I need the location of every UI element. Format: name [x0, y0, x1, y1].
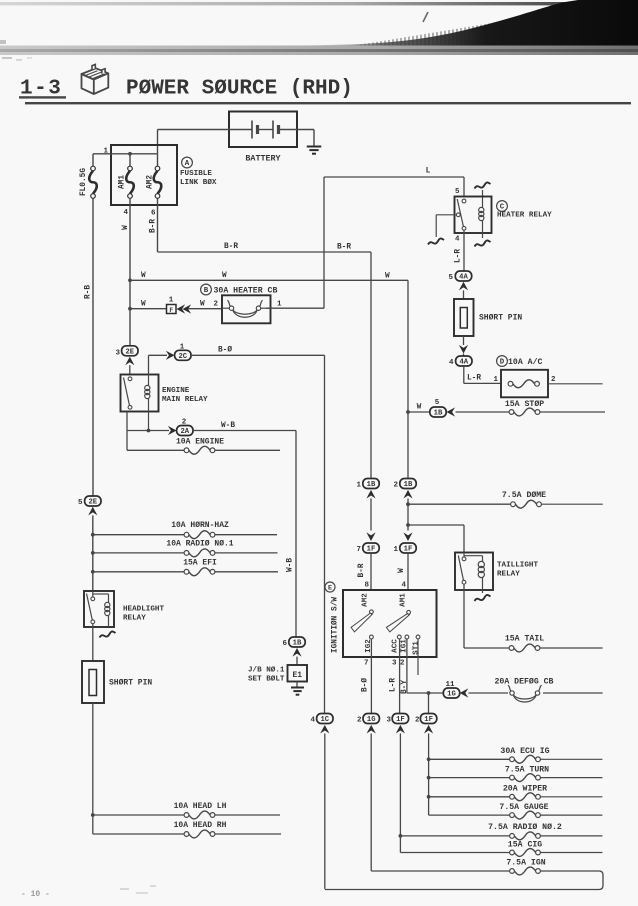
svg-text:HEADLIGHT: HEADLIGHT — [123, 606, 164, 614]
fuse 7.5A GAUGE — [499, 803, 548, 819]
wire: 10A HORN-HAZ row — [93, 534, 277, 536]
taillight relay — [455, 553, 493, 594]
svg-text:4: 4 — [123, 209, 128, 217]
svg-text:SHØRT PIN: SHØRT PIN — [109, 679, 152, 688]
wire: 15A EFI row — [93, 571, 278, 573]
wire: battery to ground — [297, 130, 314, 147]
wire label R-B — [85, 285, 93, 299]
wire: B-R horizontal (AM2 row) — [158, 251, 372, 253]
fuse 7.5A IGN — [506, 859, 545, 875]
wire: IG2 down to 2 1G — [364, 639, 371, 713]
arrow out of short pin — [459, 345, 468, 357]
heater relay (C) — [455, 188, 492, 238]
wire: 20A WIPER row — [429, 796, 603, 798]
svg-text:15A STØP: 15A STØP — [505, 399, 544, 409]
svg-text:4: 4 — [401, 582, 406, 590]
wire: L horizontal to heater relay — [324, 177, 464, 197]
wire: 7.5A DOME row — [408, 503, 603, 505]
circuit breaker 20A DEFOG CB — [495, 677, 554, 703]
svg-text:7: 7 — [364, 660, 369, 668]
fuse 10A HEAD RH — [174, 821, 227, 838]
scan noise bottom — [120, 885, 156, 894]
wire label L-R (A/C) — [467, 375, 481, 383]
wire: 15A CIG row — [400, 852, 602, 854]
scan artifact: left margin smudge — [0, 40, 32, 61]
label IGNITION S/W + circled E — [325, 582, 340, 653]
wire: engine relay switch output — [127, 412, 150, 451]
wire: 10A RADIO NO.1 row — [93, 552, 278, 554]
svg-text:D: D — [500, 359, 505, 367]
svg-text:B: B — [204, 287, 209, 295]
svg-text:2C: 2C — [178, 353, 187, 361]
svg-text:C: C — [500, 204, 505, 212]
svg-text:PØWER SØURCE (RHD): PØWER SØURCE (RHD) — [126, 78, 353, 101]
pin 4 label (ign) — [401, 582, 406, 590]
wire: 3 1F down — [399, 734, 403, 853]
svg-text:2E: 2E — [125, 348, 134, 356]
wire label B-R (ign) — [358, 563, 366, 577]
wire: AM1 to connector F — [130, 308, 167, 310]
wire: AM2 down to B-R row — [157, 198, 159, 252]
svg-text:B-R: B-R — [358, 563, 366, 577]
svg-text:4: 4 — [449, 359, 454, 367]
wire label W (1) — [141, 272, 146, 280]
wire: taillight relay to 15A TAIL — [464, 584, 603, 648]
label SHORT PIN (left) — [109, 679, 152, 688]
wire label W (4) — [141, 301, 146, 309]
wire: headlight relay to short pin — [92, 624, 94, 661]
engine main relay — [121, 375, 159, 431]
svg-text:2: 2 — [415, 717, 420, 725]
svg-text:W: W — [398, 568, 406, 573]
svg-text:7.5A GAUGE: 7.5A GAUGE — [499, 803, 548, 812]
fuse 10A HORN-HAZ — [171, 521, 229, 539]
label TAILLIGHT RELAY — [497, 562, 538, 579]
svg-text:5: 5 — [78, 499, 83, 507]
wire: 2E to headlight relay — [91, 515, 95, 591]
wire: B-O from 2C to right riser — [191, 346, 325, 356]
svg-text:1F: 1F — [424, 716, 433, 724]
svg-text:1C: 1C — [320, 716, 329, 724]
wire label W (ign) — [398, 568, 406, 573]
double arrows at connector F — [177, 304, 192, 313]
svg-text:1B: 1B — [404, 481, 413, 489]
fuse 7.5A RADIO NO.2 — [488, 822, 562, 840]
svg-text:8: 8 — [364, 582, 369, 590]
svg-text:ACC: ACC — [392, 639, 400, 653]
scan artifact: gray band under wedge — [0, 46, 638, 56]
wire: 7.5A GAUGE row — [429, 814, 603, 816]
svg-text:F: F — [169, 307, 173, 314]
svg-text:20A DEFØG CB: 20A DEFØG CB — [495, 677, 554, 687]
svg-text:10A RADIØ NØ.1: 10A RADIØ NØ.1 — [166, 540, 233, 549]
fuse 30A ECU IG — [500, 747, 549, 763]
short pin (right) — [454, 299, 474, 345]
svg-text:2: 2 — [400, 660, 405, 668]
arrow + connector 2 2A — [168, 419, 193, 437]
wire: 7.5A TURN row — [429, 777, 603, 779]
squiggle: taillight relay coil lead — [475, 595, 491, 601]
connector 5 2E — [78, 496, 101, 507]
wire: bottom return bus — [325, 871, 603, 890]
wire: taillight relay feed — [408, 525, 464, 553]
svg-text:4: 4 — [455, 236, 460, 244]
svg-text:TAILLIGHT: TAILLIGHT — [497, 562, 538, 570]
svg-text:B-Y: B-Y — [401, 680, 409, 694]
label ST1 — [413, 641, 421, 655]
svg-text:L: L — [426, 168, 431, 176]
svg-text:7: 7 — [356, 546, 361, 554]
label AM1 (ignition) — [400, 593, 408, 607]
svg-text:W: W — [417, 404, 422, 412]
ground: E1 — [291, 688, 304, 695]
svg-text:5: 5 — [455, 188, 460, 196]
fuse 15A EFI — [183, 559, 217, 576]
title section number 1-3 — [19, 78, 66, 101]
arrow into 5 4A — [459, 282, 468, 299]
label ACC — [392, 639, 400, 653]
wire label L-R (ACC) — [390, 678, 398, 692]
title text POWER SOURCE (RHD) — [126, 78, 353, 101]
connector 2 1B — [393, 479, 416, 490]
wire: W-B down to 6 1B — [295, 431, 297, 637]
svg-text:1F: 1F — [404, 546, 413, 554]
svg-text:2A: 2A — [180, 428, 189, 436]
label circled C HEATER RELAY — [497, 201, 553, 220]
wire: heater relay left contact — [436, 215, 456, 237]
fuse 7.5A TURN — [505, 766, 549, 782]
fuse 15A CIG — [508, 841, 542, 857]
bus: fusible link box top rail — [93, 152, 158, 166]
arrow into 1 1B — [366, 490, 375, 499]
svg-text:E1: E1 — [292, 671, 302, 680]
battery — [229, 112, 297, 164]
wire: 1F to ignition switch AM1 — [407, 553, 409, 590]
svg-text:15A TAIL: 15A TAIL — [505, 635, 544, 644]
wire: battery positive to fusible link box — [158, 130, 230, 154]
svg-text:1F: 1F — [367, 546, 376, 554]
wire label W (2) — [222, 272, 227, 280]
wire: heater CB output to L riser — [266, 301, 324, 309]
svg-text:1: 1 — [277, 301, 282, 309]
label ENGINE MAIN RELAY — [162, 387, 208, 404]
svg-text:10A ENGINE: 10A ENGINE — [176, 438, 224, 447]
connector F (1) — [167, 297, 177, 314]
svg-text:W: W — [200, 301, 205, 309]
svg-text:1G: 1G — [367, 716, 376, 724]
svg-text:7.5A IGN: 7.5A IGN — [506, 859, 545, 868]
connector 5 1B (stop row) — [408, 399, 446, 418]
wire: to 20A DEFOG CB — [469, 692, 603, 694]
svg-text:ENGINE: ENGINE — [162, 387, 190, 395]
short pin (left) — [82, 661, 104, 815]
fusible link AM1 — [126, 154, 134, 199]
pin 1 label (fusible link box) — [103, 148, 108, 156]
svg-text:30A HEATER CB: 30A HEATER CB — [214, 287, 278, 296]
label J/B NO.1 SET BOLT — [248, 666, 285, 684]
label IG2 — [365, 639, 373, 653]
svg-text:L-R: L-R — [390, 678, 398, 692]
svg-text:B-Ø: B-Ø — [361, 678, 370, 692]
svg-text:W: W — [141, 301, 146, 309]
fuse box 10A A/C (D) — [493, 356, 556, 398]
arrow into 6 1B — [292, 648, 301, 665]
ignition switch (E) — [343, 590, 437, 657]
arrow into 2 1F — [424, 725, 433, 734]
wire label B-O (IG2) — [361, 678, 370, 692]
wire: W-B from 2A to right — [193, 422, 296, 431]
wire: to 2A connector — [149, 430, 170, 432]
fusible link FL 0.5G — [89, 166, 97, 198]
arrow into 5 1B — [447, 407, 456, 416]
connector 6 1B — [282, 637, 305, 648]
label AM1 — [119, 175, 127, 189]
wire: engine relay coil to 2C — [149, 355, 168, 374]
wire: B-R down to 1 1B — [370, 252, 372, 478]
svg-text:1: 1 — [393, 546, 398, 554]
title underline rule — [25, 102, 631, 104]
svg-text:AM2: AM2 — [362, 593, 370, 607]
connector 11 1G — [443, 681, 459, 699]
wire: 30A ECU IG row — [429, 758, 603, 760]
svg-text:1B: 1B — [293, 640, 302, 648]
svg-text:FL0.5G: FL0.5G — [80, 168, 88, 196]
wire: 4 1C down — [324, 734, 326, 889]
svg-text:2: 2 — [213, 301, 218, 309]
fuse 20A WIPER — [503, 785, 547, 801]
svg-text:1: 1 — [356, 482, 361, 490]
svg-text:L-R: L-R — [467, 375, 481, 383]
svg-text:7.5A TURN: 7.5A TURN — [505, 766, 549, 775]
ground: battery negative — [307, 147, 322, 154]
wire: ST1 stub — [417, 639, 419, 675]
svg-text:2: 2 — [357, 717, 362, 725]
scan artifact: top edge line — [0, 2, 638, 5]
connector 7 1F — [356, 543, 379, 554]
ground point E1 — [288, 665, 308, 688]
wire label L-R (heater) — [455, 249, 463, 263]
wire: 10A HEAD LH row — [91, 813, 280, 817]
wire label B-R (1) — [224, 243, 238, 251]
svg-text:B-Ø: B-Ø — [218, 346, 232, 355]
svg-text:10A HØRN-HAZ: 10A HØRN-HAZ — [171, 521, 229, 530]
svg-text:10A HEAD RH: 10A HEAD RH — [174, 821, 227, 830]
connector 4 1C — [310, 714, 333, 725]
arrow into 11 1G — [460, 688, 469, 697]
svg-text:A: A — [185, 160, 190, 168]
wire: W horizontal bus — [130, 279, 408, 281]
svg-text:- 10 -: - 10 - — [21, 890, 50, 899]
svg-text:LINK BØX: LINK BØX — [180, 178, 217, 187]
pin 6 label — [151, 210, 156, 218]
svg-text:B-R: B-R — [224, 243, 238, 251]
wire: AM1 down (W) — [128, 198, 132, 345]
svg-text:AM2: AM2 — [147, 175, 155, 189]
svg-text:2: 2 — [393, 482, 398, 490]
connector 2 1F — [415, 714, 437, 725]
svg-text:15A CIG: 15A CIG — [508, 841, 542, 850]
svg-text:1B: 1B — [367, 481, 376, 489]
svg-text:MAIN RELAY: MAIN RELAY — [162, 396, 208, 404]
svg-text:IGNITIØN S/W: IGNITIØN S/W — [331, 597, 340, 653]
wire label B-Y (IG1) — [401, 680, 409, 694]
fuse 15A TAIL — [505, 635, 544, 652]
label AM2 (ignition) — [362, 593, 370, 607]
label IG1 — [401, 639, 409, 653]
svg-text:RELAY: RELAY — [123, 615, 146, 623]
svg-text:W: W — [122, 225, 130, 230]
svg-text:2E: 2E — [88, 499, 97, 507]
wire: 10A A/C output — [548, 383, 603, 385]
svg-text:SET BØLT: SET BØLT — [248, 675, 285, 684]
svg-text:SHØRT PIN: SHØRT PIN — [479, 314, 522, 323]
svg-text:15A EFI: 15A EFI — [183, 559, 217, 568]
svg-text:1: 1 — [493, 376, 498, 384]
svg-text:4A: 4A — [459, 359, 468, 367]
svg-text:W-B: W-B — [221, 422, 235, 430]
headlight relay — [84, 591, 114, 627]
wire: W between 1B and 1F — [406, 499, 410, 531]
svg-text:RELAY: RELAY — [497, 571, 520, 579]
arrow into 2E (from below) — [88, 507, 97, 516]
fuse 15A STOP — [505, 399, 544, 416]
pin 8 label — [364, 582, 369, 590]
wire: 2 1F down to fuse rows — [427, 734, 431, 816]
wire label B-R (below AM2) — [150, 219, 158, 233]
squiggle: heater relay coil top — [475, 182, 491, 206]
svg-text:2: 2 — [551, 376, 556, 384]
wire label L — [426, 168, 431, 176]
fuse 10A ENGINE — [176, 438, 224, 455]
wire label B-R (2) — [337, 244, 351, 252]
label HEADLIGHT RELAY — [123, 606, 164, 623]
svg-text:B-R: B-R — [337, 244, 351, 252]
scan artifact: dark wedge top right — [300, 0, 638, 48]
svg-text:5: 5 — [435, 399, 440, 407]
connector 4 4A — [449, 356, 472, 367]
wire: 1F to ignition switch AM2 — [370, 553, 372, 590]
wire: IG1 down and right — [400, 639, 443, 713]
page number — [21, 890, 50, 899]
svg-text:6: 6 — [151, 210, 156, 218]
svg-text:B-R: B-R — [150, 219, 158, 233]
arrow into 4 1C — [320, 725, 329, 734]
wire: 15A STOP row — [456, 411, 606, 413]
svg-text:3: 3 — [392, 660, 397, 668]
svg-text:30A ECU IG: 30A ECU IG — [500, 747, 549, 756]
svg-text:7.5A RADIØ NØ.2: 7.5A RADIØ NØ.2 — [488, 822, 562, 832]
wire: W riser top — [406, 280, 410, 478]
arrow into 2 1B — [403, 490, 412, 499]
svg-text:10A HEAD LH: 10A HEAD LH — [174, 802, 227, 811]
arrow into 1 1F — [403, 532, 412, 541]
svg-text:J/B NØ.1: J/B NØ.1 — [248, 666, 285, 675]
svg-text:ST1: ST1 — [413, 641, 421, 655]
label: circled A FUSIBLE LINK BOX — [180, 157, 217, 187]
svg-text:3: 3 — [115, 349, 120, 357]
wire: R-B from FL0.5G down to connector 2E — [92, 198, 94, 496]
svg-text:AM1: AM1 — [119, 175, 127, 189]
arrow into 2 1G — [367, 725, 376, 734]
wire: ACC down to 3 1F — [392, 639, 400, 713]
svg-text:4: 4 — [310, 717, 315, 725]
svg-text:W: W — [141, 272, 146, 280]
svg-text:W-B: W-B — [287, 558, 295, 572]
wire: 10A HEAD RH row — [93, 815, 281, 834]
wire: 2 1G down — [370, 734, 372, 872]
fusible link AM2 — [154, 154, 162, 199]
connector 1 1F — [393, 543, 416, 554]
svg-text:5: 5 — [448, 274, 453, 282]
wire label W (below AM1) — [122, 225, 130, 230]
fuse 7.5A DOME — [502, 490, 546, 508]
label FL0.5G — [80, 168, 88, 196]
wire: B-O riser down to 4 1C — [324, 355, 326, 713]
svg-text:1G: 1G — [447, 691, 456, 699]
wire label W-B — [287, 558, 295, 572]
connector 3 2E — [115, 346, 138, 358]
svg-text:1F: 1F — [396, 716, 405, 724]
wire: B-R between 1B and 1F — [370, 499, 372, 531]
arrow + connector 1 2C — [166, 344, 191, 361]
svg-text:4A: 4A — [459, 274, 468, 282]
svg-text:1: 1 — [169, 297, 174, 305]
svg-text:FUSIBLE: FUSIBLE — [180, 170, 212, 178]
arrow into 3 1F — [396, 725, 405, 734]
svg-text:6: 6 — [282, 640, 287, 648]
wire label W (3) — [385, 273, 390, 281]
wire: 4A down and right to 10A A/C — [464, 366, 501, 383]
svg-text:20A WIPER: 20A WIPER — [503, 785, 547, 794]
fusible link box (A) — [111, 145, 177, 205]
squiggle: headlight relay coil lead — [100, 631, 116, 637]
wire: heater relay pin 4 down — [455, 230, 464, 271]
svg-text:10A A/C: 10A A/C — [508, 357, 542, 367]
scan artifact: small slash mark — [423, 12, 428, 22]
title battery icon — [82, 64, 109, 94]
connector 2 1G — [357, 714, 379, 725]
svg-text:AM1: AM1 — [400, 593, 408, 607]
svg-text:L-R: L-R — [455, 249, 463, 263]
svg-text:R-B: R-B — [85, 285, 93, 299]
connector 5 4A — [448, 271, 471, 282]
fuse 10A RADIO NO.1 — [166, 540, 233, 557]
svg-text:E: E — [328, 585, 332, 593]
svg-text:7.5A DØME: 7.5A DØME — [502, 490, 546, 500]
wire: F to heater CB — [188, 301, 222, 309]
wire: 7.5A IGN row — [371, 870, 599, 872]
squiggle: heater relay coil bottom — [475, 240, 491, 246]
svg-text:BATTERY: BATTERY — [245, 154, 281, 164]
arrow into engine main relay — [125, 357, 134, 375]
svg-text:1B: 1B — [434, 410, 443, 418]
svg-text:W: W — [222, 272, 227, 280]
arrow into 7 1F — [366, 532, 375, 541]
wire: 10A ENGINE row — [127, 449, 280, 451]
squiggle: heater relay left lead — [428, 238, 444, 244]
label AM2 — [147, 175, 155, 189]
pin 4 label — [123, 209, 128, 217]
svg-text:HEATER RELAY: HEATER RELAY — [497, 212, 552, 220]
svg-text:1: 1 — [103, 148, 108, 156]
connector 3 1F — [386, 714, 408, 725]
wire: L riser (heater CB out to L wire) — [323, 177, 325, 308]
wire: 7.5A RADIO NO.2 row — [400, 835, 602, 837]
circuit breaker 30A HEATER CB (B) — [201, 284, 278, 323]
svg-text:3: 3 — [386, 717, 391, 725]
label SHORT PIN (right) — [479, 314, 522, 323]
connector 1 1B — [356, 479, 379, 490]
